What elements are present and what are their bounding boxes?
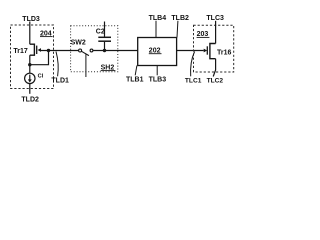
capacitor C2 (98, 22, 111, 51)
svg-text:Tr17: Tr17 (13, 48, 28, 55)
dotted block SH2 (71, 26, 118, 72)
svg-text:TLD2: TLD2 (21, 97, 39, 104)
label SW2 (71, 40, 86, 47)
svg-text:C2: C2 (96, 28, 105, 35)
wire TLC1 leader (191, 52, 195, 77)
node TLC3 (206, 15, 224, 22)
wire TLB2 stem (176, 21, 179, 38)
wire SW2 to C2 node (93, 50, 138, 52)
label Tr17 (13, 48, 28, 55)
label Tr16 (217, 49, 232, 56)
switch SW2 (79, 49, 93, 56)
wire TLD3 stem (29, 22, 31, 45)
wire Tr16 source to TLC2 (213, 59, 215, 77)
node TLD1 leader (56, 52, 58, 77)
wire SW2 control (85, 54, 87, 77)
label C2 (96, 28, 105, 35)
node TLD2 (21, 97, 39, 104)
wire TLB1 leader (135, 66, 137, 76)
node TLC1 (185, 77, 202, 84)
label 202 (149, 48, 162, 55)
node TLB3 (149, 76, 167, 83)
svg-text:TLB3: TLB3 (149, 76, 167, 83)
block 202 (138, 38, 177, 66)
node junction gate (47, 49, 50, 52)
node TLD1 (51, 77, 69, 84)
svg-text:TLD3: TLD3 (22, 16, 40, 23)
wire main gate line to SW2 (41, 50, 79, 52)
node TLB4 (149, 15, 167, 22)
svg-text:TLB2: TLB2 (171, 15, 189, 22)
wire TLC3 to Tr16 drain (215, 21, 217, 44)
current source CI (25, 73, 35, 83)
svg-text:SW2: SW2 (71, 40, 86, 47)
wire 202 to Tr16 (177, 50, 204, 52)
node TLD3 (22, 16, 40, 23)
wire to TLD2 (29, 84, 31, 94)
node TLB2 (171, 15, 189, 22)
label 203 (197, 31, 210, 38)
dashed block 203 (194, 25, 234, 72)
node junction source/diode (28, 63, 31, 66)
wire diode connection (30, 51, 49, 65)
wire TLB4 stem (155, 21, 157, 38)
node TLB1 (126, 76, 144, 83)
svg-text:TLB4: TLB4 (149, 15, 167, 22)
dashed block 204 (11, 25, 54, 89)
node TLC2 (207, 77, 224, 84)
svg-text:Tr16: Tr16 (217, 49, 232, 56)
svg-text:TLD1: TLD1 (51, 77, 69, 84)
transistor Tr16 (204, 44, 216, 59)
wire Tr17 source down (29, 55, 31, 73)
wire TLB3 stem (156, 66, 158, 76)
transistor Tr17 (30, 44, 41, 55)
svg-text:TLC1: TLC1 (185, 77, 202, 84)
svg-text:CI: CI (38, 74, 44, 80)
label CI (38, 74, 44, 80)
label SH2 (101, 65, 116, 72)
svg-text:TLC2: TLC2 (207, 77, 224, 84)
label 204 (40, 30, 53, 37)
node junction C2 (103, 49, 106, 52)
svg-text:TLB1: TLB1 (126, 76, 144, 83)
